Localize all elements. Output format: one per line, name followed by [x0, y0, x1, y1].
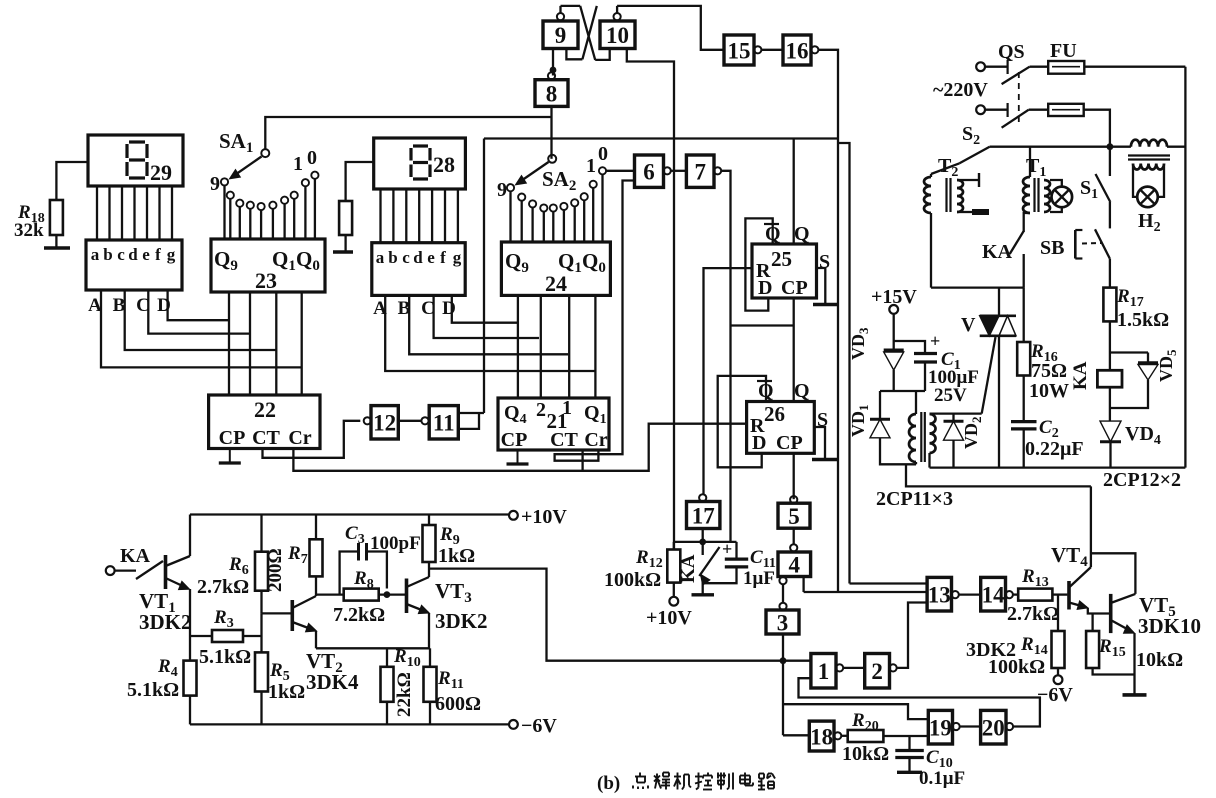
- svg-text:KA: KA: [982, 241, 1013, 263]
- wire 15 to 16: [762, 49, 783, 51]
- T1 pilot lamp: [1050, 180, 1062, 187]
- svg-text:200Ω: 200Ω: [265, 548, 286, 592]
- svg-text:S1: S1: [1080, 177, 1098, 202]
- junction at gate 8 input: [550, 67, 557, 74]
- svg-text:26: 26: [764, 402, 785, 426]
- VT4 emitter to VT5 base: [1088, 608, 1110, 614]
- KA input terminal: [106, 566, 115, 575]
- wire 12 to 11: [398, 420, 421, 422]
- gate 4 second output to 13: [802, 577, 804, 593]
- KA node horizontal wire: [674, 541, 737, 543]
- svg-text:CT: CT: [550, 429, 578, 451]
- svg-text:3DK4: 3DK4: [306, 670, 359, 694]
- svg-text:SA2: SA2: [542, 167, 576, 194]
- T2 secondary electrode taps: [957, 179, 979, 181]
- svg-text:KA: KA: [120, 545, 151, 567]
- VT1 emitter column: [189, 589, 191, 661]
- svg-text:10kΩ: 10kΩ: [1136, 649, 1183, 671]
- svg-text:SA1: SA1: [219, 129, 253, 156]
- svg-text:11: 11: [433, 411, 455, 436]
- wire 6 to 7: [671, 170, 686, 172]
- svg-text:−6V: −6V: [521, 715, 557, 737]
- wire 10 output to long vertical: [627, 49, 674, 550]
- svg-text:~220V: ~220V: [933, 79, 988, 101]
- +10V terminal: [509, 511, 518, 520]
- resistor R18: [50, 200, 63, 235]
- capacitor C3: [357, 543, 360, 561]
- svg-text:c: c: [402, 248, 410, 267]
- svg-text:R4: R4: [157, 656, 178, 680]
- transistor VT3: [405, 579, 409, 614]
- svg-text:3DK2: 3DK2: [966, 639, 1016, 661]
- wire V1 into gate 13 lower input: [804, 591, 928, 593]
- wire 10 input to gate 15: [617, 6, 724, 50]
- S of 26 to ground: [814, 427, 825, 458]
- svg-text:CP: CP: [501, 429, 528, 451]
- svg-text:0: 0: [598, 143, 608, 165]
- KA relay contact (logic): [702, 542, 704, 555]
- svg-text:R12: R12: [635, 547, 663, 571]
- ground below KA contact: [692, 593, 715, 596]
- gate 9 input bubble: [557, 13, 564, 20]
- junction dot R8 right: [384, 591, 391, 598]
- svg-text:Cr: Cr: [584, 429, 607, 451]
- svg-text:75Ω: 75Ω: [1031, 360, 1067, 382]
- -6V terminal bottom: [509, 720, 518, 729]
- svg-text:19: 19: [929, 715, 952, 740]
- svg-text:Q1: Q1: [584, 402, 607, 427]
- wire SA2 contact 0 to gate 6: [607, 170, 635, 172]
- resistor R13: [1018, 589, 1052, 601]
- gate 11 output wires: [458, 412, 484, 414]
- svg-text:9: 9: [497, 179, 507, 201]
- wire 4 to 3: [782, 584, 784, 602]
- svg-text:Q4: Q4: [504, 402, 527, 427]
- svg-text:18: 18: [810, 724, 833, 749]
- svg-text:VT3: VT3: [435, 579, 472, 606]
- svg-text:13: 13: [928, 582, 951, 607]
- svg-text:25: 25: [771, 247, 792, 271]
- svg-text:g: g: [453, 248, 462, 267]
- wire Cr of 22 to bus: [293, 424, 746, 471]
- wire resistor to ground: [344, 235, 346, 251]
- svg-text:Q: Q: [794, 223, 810, 245]
- gate 18: [809, 721, 834, 751]
- svg-text:f: f: [155, 245, 161, 264]
- resistor R10: [381, 667, 394, 702]
- svg-text:Q0: Q0: [582, 249, 606, 276]
- svg-text:12: 12: [373, 411, 396, 436]
- svg-text:6: 6: [643, 159, 655, 184]
- rail continues to right vertical: [1167, 146, 1185, 148]
- gate 3 input bubble: [779, 603, 786, 610]
- wires display29 to decoder: [96, 186, 98, 240]
- wire V2 into gate 13 upper input: [850, 582, 928, 584]
- gate 18 output bubble: [834, 732, 841, 739]
- flip-flop 26: [747, 402, 815, 454]
- svg-text:e: e: [427, 248, 435, 267]
- ground below C10: [897, 771, 922, 774]
- dashed link of QS poles: [1018, 72, 1020, 124]
- gate 16: [783, 35, 811, 65]
- diode VD1: [879, 391, 881, 419]
- svg-text:Q0: Q0: [296, 247, 320, 274]
- gate 6 output bubble: [664, 167, 671, 174]
- svg-text:b: b: [388, 248, 397, 267]
- gate 3: [766, 610, 799, 634]
- svg-text:VD3: VD3: [848, 327, 871, 360]
- pulse transformer primary: [915, 391, 917, 414]
- resistor R3: [212, 630, 243, 642]
- bus wire to gate 19 upper input: [783, 704, 928, 719]
- wire 19 to 20: [960, 725, 981, 727]
- wire 7 output down to KA node: [721, 171, 730, 542]
- svg-text:5: 5: [788, 504, 800, 529]
- stub to vertical V2: [838, 143, 850, 584]
- svg-text:2: 2: [871, 659, 883, 684]
- svg-text:R17: R17: [1116, 286, 1144, 310]
- long horizontal wire y138.5: [484, 137, 838, 139]
- svg-text:c: c: [117, 245, 125, 264]
- wire R18 to ground: [55, 235, 57, 247]
- svg-text:25V: 25V: [934, 385, 967, 406]
- block 21 counter: [498, 398, 609, 450]
- wire 14 to R13: [1013, 593, 1018, 595]
- svg-text:T2: T2: [938, 155, 958, 180]
- relay coil KA: [1097, 370, 1122, 387]
- junction dot under 17: [699, 539, 706, 546]
- VT4 collector branch to VT5 collector: [1091, 553, 1136, 594]
- KA contact to VT1 base: [115, 569, 136, 571]
- svg-text:VT4: VT4: [1051, 543, 1088, 570]
- feedback wire gate 1 lower input from 20: [799, 678, 1040, 726]
- svg-text:V: V: [961, 314, 976, 336]
- svg-text:(b): (b): [597, 773, 620, 794]
- CP of 26 down to gate 5: [793, 453, 795, 499]
- gate 15 output bubble: [754, 46, 761, 53]
- wire fuse2 to rail: [1084, 110, 1110, 147]
- wire display29 to R18: [56, 162, 88, 200]
- pilot transformer H2: [1131, 140, 1167, 147]
- wires A B C D to block 22 inputs: [101, 290, 302, 367]
- transistor VT1: [164, 555, 168, 589]
- wire to CP of 25: [731, 324, 794, 326]
- svg-text:a: a: [91, 245, 100, 264]
- +10V terminal under R12: [669, 597, 678, 606]
- svg-text:S2: S2: [962, 123, 980, 148]
- svg-text:3: 3: [777, 610, 789, 635]
- T2 primary to lower wire: [930, 213, 932, 288]
- svg-text:100pF: 100pF: [370, 533, 421, 554]
- svg-text:7.2kΩ: 7.2kΩ: [333, 604, 385, 626]
- gate 7: [686, 155, 714, 187]
- wire fuse to right vertical: [1084, 66, 1185, 68]
- svg-text:Q9: Q9: [214, 247, 238, 274]
- cross-coupling wires between 9 and 10: [561, 5, 581, 7]
- wire 8 to SA pivots: [550, 106, 552, 158]
- gate 20 output bubble: [1006, 723, 1013, 730]
- pulse transformer secondary: [930, 414, 936, 453]
- svg-text:22kΩ: 22kΩ: [394, 672, 415, 717]
- gate 4 input bubble: [790, 544, 797, 551]
- gate 4: [778, 552, 811, 577]
- decoder a-g block (under 29): [86, 240, 182, 290]
- gate 12 input bubble: [364, 417, 371, 424]
- gate 10: [600, 21, 635, 49]
- svg-text:D: D: [442, 298, 456, 319]
- svg-text:CT: CT: [252, 427, 280, 449]
- resistor R8: [344, 589, 379, 601]
- wire 16 output down long vertical V1: [819, 50, 838, 592]
- svg-text:0: 0: [307, 147, 317, 169]
- capacitor C2: [1011, 420, 1037, 423]
- svg-text:+10V: +10V: [521, 506, 567, 528]
- diode VD3: [884, 349, 904, 352]
- emitter bus wire: [316, 647, 430, 649]
- svg-text:H2: H2: [1138, 210, 1161, 235]
- svg-text:R11: R11: [437, 668, 464, 692]
- svg-text:VD5: VD5: [1156, 349, 1179, 382]
- VT3 emitter column: [428, 613, 430, 648]
- svg-text:20: 20: [982, 715, 1005, 740]
- gate 12: [371, 406, 398, 439]
- thyristor gate wire: [982, 337, 996, 414]
- gate 14 output bubble: [1006, 591, 1013, 598]
- svg-text:f: f: [440, 248, 446, 267]
- branch S1 switch: [1109, 147, 1111, 176]
- wire R13 to VT4 base: [1052, 593, 1067, 595]
- resistor R16: [1023, 288, 1025, 342]
- gate 8: [535, 80, 568, 107]
- svg-text:4: 4: [789, 553, 801, 578]
- svg-text:R14: R14: [1020, 634, 1048, 658]
- svg-text:17: 17: [692, 503, 715, 528]
- resistor R17: [1103, 288, 1116, 322]
- transistor VT2: [290, 600, 294, 631]
- svg-text:2.7kΩ: 2.7kΩ: [1007, 603, 1059, 625]
- svg-text:22: 22: [254, 397, 276, 422]
- mains terminal upper: [976, 62, 985, 71]
- resistor R11: [424, 667, 437, 702]
- svg-text:D: D: [752, 432, 766, 454]
- wire CT of 21 to bus: [581, 450, 583, 471]
- gate 9: [543, 21, 578, 49]
- wire 3 down to bus junction: [782, 634, 784, 735]
- gate 6 lower input wire from Cr of 21: [555, 181, 635, 461]
- power bottom rail: [930, 466, 1186, 468]
- gate 13 output bubble: [952, 591, 959, 598]
- svg-text:24: 24: [545, 271, 567, 296]
- wire KA contact to ground: [702, 578, 704, 594]
- wire T2 bottom to KA contact: [931, 286, 1024, 288]
- gate 14: [981, 577, 1006, 611]
- svg-text:5.1kΩ: 5.1kΩ: [199, 646, 251, 668]
- diode VD5 across coil: [1110, 351, 1148, 353]
- svg-text:28: 28: [433, 152, 455, 177]
- 7-segment display 28: [374, 138, 466, 189]
- svg-text:2.7kΩ: 2.7kΩ: [197, 576, 249, 598]
- svg-text:a: a: [376, 248, 385, 267]
- capacitor C1: [894, 341, 925, 354]
- wire R20 to gate 19: [883, 735, 928, 737]
- counter 24: [501, 242, 610, 295]
- svg-text:8: 8: [546, 81, 558, 106]
- ground below VT5: [1123, 693, 1147, 697]
- VT2 emitter column: [315, 631, 317, 648]
- resistor R7: [310, 539, 323, 576]
- svg-text:0.1μF: 0.1μF: [919, 768, 965, 789]
- svg-text:d: d: [128, 245, 138, 264]
- svg-text:1: 1: [293, 153, 303, 175]
- wire 2 output up to gate 13: [897, 603, 927, 668]
- gate 17 input bubble: [699, 494, 706, 501]
- wire 13 to 14: [959, 593, 981, 595]
- svg-text:+: +: [930, 331, 940, 351]
- svg-text:3DK2: 3DK2: [139, 610, 192, 634]
- svg-text:SB: SB: [1040, 237, 1064, 259]
- svg-text:R3: R3: [213, 607, 234, 631]
- svg-text:1μF: 1μF: [743, 568, 775, 589]
- ground below resistor 28: [333, 250, 353, 253]
- R input wire of 25 from one-shot 17: [704, 268, 753, 494]
- right supply vertical: [1184, 67, 1186, 468]
- one-shot 17: [687, 502, 720, 529]
- svg-text:600Ω: 600Ω: [435, 693, 481, 715]
- svg-text:R7: R7: [287, 543, 308, 567]
- svg-text:R10: R10: [393, 646, 421, 670]
- junction dot at 3 column: [780, 657, 787, 664]
- fuse lower: [1048, 104, 1084, 116]
- resistor R4: [184, 661, 197, 696]
- gate 15: [724, 35, 754, 65]
- wire pulse transformer to VT4 collector: [906, 464, 1091, 486]
- thyristor V to bottom rail: [998, 336, 1000, 468]
- svg-text:2: 2: [536, 399, 546, 421]
- flip-flop 25: [752, 244, 817, 298]
- thyristor V column top: [998, 288, 1000, 316]
- gate 11 input bubble: [421, 417, 428, 424]
- svg-text:KA: KA: [678, 554, 699, 583]
- svg-text:−6V: −6V: [1037, 684, 1073, 706]
- gate 13: [927, 577, 951, 611]
- CP pin of 25 down to Q of 26: [793, 298, 795, 402]
- svg-text:2CP12×2: 2CP12×2: [1103, 469, 1181, 491]
- transistor VT5: [1109, 594, 1113, 633]
- svg-text:23: 23: [255, 268, 277, 293]
- svg-text:CP: CP: [781, 277, 808, 299]
- svg-text:5.1kΩ: 5.1kΩ: [127, 679, 179, 701]
- wires counter 23 to block 22: [228, 292, 230, 395]
- wires A B C D to block 21 inputs: [385, 295, 595, 371]
- svg-text:32k: 32k: [14, 220, 44, 241]
- svg-text:10: 10: [606, 23, 629, 48]
- svg-text:3DK10: 3DK10: [1138, 614, 1201, 638]
- ground below CP of 22: [229, 449, 231, 464]
- -6V rail: [190, 723, 509, 725]
- svg-text:VD2: VD2: [961, 417, 984, 450]
- gate 17 output to KA node: [702, 529, 704, 542]
- svg-text:C3: C3: [345, 523, 365, 547]
- svg-text:Cr: Cr: [288, 427, 311, 449]
- gate 7 output bubble: [714, 167, 721, 174]
- svg-text:b: b: [103, 245, 112, 264]
- vertical from long wire down to gate 11 output: [483, 139, 485, 414]
- svg-text:Q: Q: [794, 380, 810, 402]
- transistor VT4: [1067, 581, 1071, 610]
- wires display28 to decoder: [379, 189, 381, 243]
- gate 1 output bubble: [836, 664, 843, 671]
- svg-text:10kΩ: 10kΩ: [842, 743, 889, 765]
- Q of 25 up to long wire: [793, 139, 795, 245]
- ground below CP of 21: [517, 450, 519, 464]
- svg-text:29: 29: [150, 160, 172, 185]
- svg-text:100kΩ: 100kΩ: [604, 569, 661, 591]
- svg-text:Q9: Q9: [505, 249, 529, 276]
- gate 2 output bubble: [890, 664, 897, 671]
- ground below R18: [44, 246, 70, 249]
- svg-text:D: D: [758, 277, 772, 299]
- svg-text:g: g: [167, 245, 176, 264]
- wire 1 to 2: [843, 667, 865, 669]
- Qbar of 26 to D loop: [718, 376, 766, 467]
- rectifier node wire: [880, 390, 925, 392]
- svg-text:1kΩ: 1kΩ: [438, 545, 475, 567]
- svg-text:1kΩ: 1kΩ: [268, 681, 305, 703]
- svg-text:e: e: [142, 245, 150, 264]
- svg-text:R15: R15: [1098, 636, 1126, 660]
- svg-text:CP: CP: [776, 432, 803, 454]
- svg-text:R20: R20: [851, 710, 879, 734]
- svg-text:1: 1: [818, 659, 830, 684]
- svg-text:16: 16: [786, 38, 809, 63]
- gate 8 input bubble: [548, 72, 555, 79]
- diode VD2: [952, 414, 954, 422]
- junction dot on rail: [1107, 143, 1114, 150]
- 7-segment display 29: [88, 135, 183, 186]
- resistor R5: [255, 652, 268, 691]
- svg-text:3DK2: 3DK2: [435, 609, 488, 633]
- resistor under display 28: [339, 201, 352, 235]
- svg-text:D: D: [157, 295, 171, 316]
- svg-text:0.22μF: 0.22μF: [1025, 438, 1084, 460]
- gate 20: [981, 710, 1006, 744]
- svg-text:9: 9: [210, 173, 220, 195]
- counter 23: [211, 239, 325, 292]
- svg-text:CP: CP: [219, 427, 246, 449]
- Qbar of 25 to D loop: [745, 218, 772, 310]
- S of 25 to ground: [817, 268, 826, 303]
- wire 18 to R20: [841, 735, 847, 737]
- +10V rail: [190, 513, 509, 515]
- mains terminal lower: [976, 105, 985, 114]
- VT5 emitter to ground: [1133, 633, 1135, 693]
- resistor R12: [667, 550, 680, 583]
- gate 1: [811, 654, 836, 689]
- VT3 collector wire to logic: [429, 569, 811, 661]
- block 22 counter: [209, 395, 320, 449]
- lower supply rail: [990, 146, 1131, 148]
- svg-text:14: 14: [982, 582, 1006, 607]
- gate 19: [928, 710, 952, 744]
- capacitor C10: [908, 736, 910, 750]
- svg-text:VD4: VD4: [1125, 423, 1161, 448]
- wire display28 to resistor: [346, 162, 374, 201]
- diode VD4: [1109, 387, 1111, 421]
- gate 19 output bubble: [953, 723, 960, 730]
- svg-text:VD1: VD1: [848, 405, 871, 438]
- resistor R6: [255, 552, 268, 591]
- svg-text:1.5kΩ: 1.5kΩ: [1117, 309, 1169, 331]
